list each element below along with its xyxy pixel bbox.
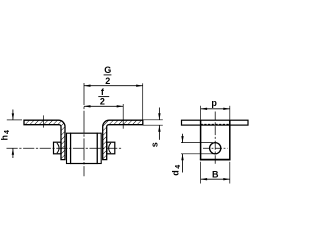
dimension B <box>201 162 230 184</box>
svg-text:B: B <box>212 170 219 180</box>
svg-text:G: G <box>104 65 111 75</box>
side view flange bar <box>182 120 249 125</box>
pin left end <box>54 142 62 154</box>
svg-text:2: 2 <box>105 76 110 86</box>
svg-text:p: p <box>211 98 217 108</box>
hole d4 circle <box>210 143 221 154</box>
side view web bottom edge <box>200 159 231 161</box>
dimension G/2 <box>84 65 143 120</box>
svg-text:h: h <box>0 135 10 141</box>
dimension h4 <box>0 110 22 159</box>
bent attachment plate right (section) <box>103 120 143 159</box>
pin right end <box>107 142 115 154</box>
dimension s <box>143 108 163 148</box>
inner link plate right <box>97 133 101 163</box>
bent attachment plate left (section) <box>24 120 65 159</box>
side view web right edge <box>229 120 231 160</box>
vertical centerline (chain axis) <box>83 83 85 176</box>
svg-text:2: 2 <box>100 97 105 107</box>
dimension f/2 <box>84 87 123 129</box>
dimension p <box>201 98 230 120</box>
dimension d4 <box>170 134 213 176</box>
horizontal centerline through hole <box>203 147 228 149</box>
svg-text:s: s <box>149 142 159 147</box>
svg-text:4: 4 <box>175 165 182 169</box>
inner link plate left <box>67 133 71 163</box>
side view web left edge <box>200 120 202 160</box>
svg-text:d: d <box>170 170 180 176</box>
horizontal centerline (pin axis) <box>7 147 123 149</box>
hole centerline left flange <box>42 115 44 127</box>
svg-text:4: 4 <box>4 130 11 134</box>
vertical centerline side view <box>214 112 216 164</box>
roller <box>71 133 98 163</box>
hidden bend line (dashed) <box>201 123 230 125</box>
